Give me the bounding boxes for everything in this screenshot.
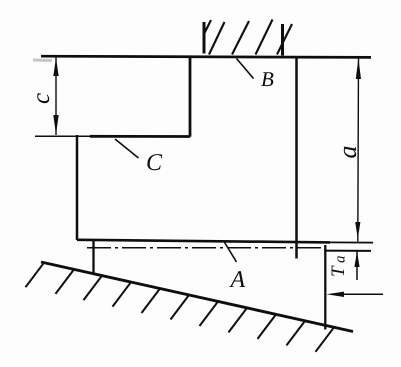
wire step bottom edge thin extension: [35, 135, 95, 137]
wire dimension line a: [357, 58, 360, 242]
wire leader line to surface A: [224, 242, 237, 263]
node ground hatch strokes: [26, 263, 335, 352]
svg-text:a: a: [333, 256, 349, 264]
wire step vertical edge: [189, 56, 192, 137]
wire top edge of block with extension lines: [33, 59, 52, 63]
node ceiling hatch stroke 4: [277, 24, 292, 55]
node arrowhead c top: [53, 58, 58, 76]
node arrowhead pointer left: [327, 292, 345, 297]
wire block right edge: [295, 57, 298, 259]
svg-text:a: a: [333, 146, 362, 159]
node arrowhead a bottom: [355, 222, 360, 239]
wire left support leg: [92, 240, 94, 273]
node ceiling hatch stroke 2: [232, 21, 249, 55]
node label Ta: [328, 256, 349, 278]
wire right support leg: [324, 245, 326, 330]
svg-text:B: B: [261, 67, 274, 91]
node arrowhead a top: [356, 58, 361, 79]
wire dimension line c on block left edge: [55, 58, 57, 136]
node fixed ceiling wall left edge: [203, 22, 206, 54]
svg-text:c: c: [28, 93, 55, 104]
wire dash-dot centre line A: [87, 247, 324, 249]
wire horizontal pointer arrow line at right leg: [332, 293, 383, 295]
node arrowhead c bottom: [53, 115, 58, 135]
wire dimension line Ta: [356, 252, 358, 281]
svg-text:C: C: [146, 150, 163, 176]
node ceiling hatch stroke 3: [256, 20, 273, 55]
node ceiling hatch stroke 0: [205, 20, 212, 33]
node ceiling hatch stroke 1: [209, 22, 225, 55]
node arrowhead Ta up: [354, 252, 359, 268]
wire step bottom edge thick: [90, 135, 190, 138]
wire lower-left vertical edge: [76, 135, 79, 240]
wire block bottom edge thin extension: [330, 241, 373, 243]
node fixed ceiling wall right edge: [281, 24, 284, 56]
svg-text:A: A: [229, 267, 246, 293]
wire block bottom edge thick: [77, 240, 330, 243]
wire tolerance zone lower bound line: [324, 250, 371, 252]
wire leader line to surface C: [115, 139, 139, 158]
wire leader line to surface B: [237, 59, 254, 79]
svg-text:T: T: [328, 265, 349, 277]
wire inclined ground line: [41, 262, 353, 332]
